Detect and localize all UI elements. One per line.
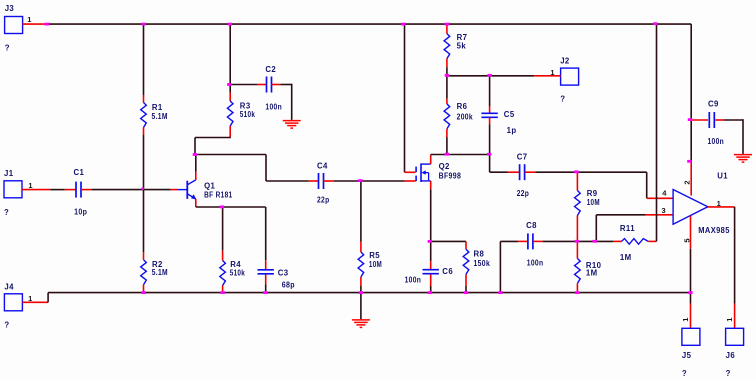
svg-text:100n: 100n — [405, 276, 422, 285]
wire — [222, 207, 224, 251]
svg-text:BF998: BF998 — [439, 172, 462, 181]
junction J5 net — [688, 291, 692, 294]
wire — [690, 293, 692, 304]
svg-text:5.1M: 5.1M — [152, 112, 168, 121]
capacitor C1 — [65, 168, 92, 217]
resistor R10 — [575, 241, 602, 292]
capacitor C6 — [405, 241, 454, 292]
wire — [265, 155, 267, 182]
capacitor C4 — [309, 162, 334, 205]
junction Q2 gate column — [401, 23, 405, 26]
wire — [690, 161, 692, 195]
wire — [430, 155, 432, 164]
resistor R2 — [141, 252, 168, 292]
svg-text:U1: U1 — [717, 172, 728, 181]
junction R5 bottom — [359, 291, 363, 294]
svg-text:Q2: Q2 — [439, 162, 450, 171]
resistor R6 — [444, 76, 473, 155]
junction R7 bottom — [445, 74, 449, 77]
svg-text:J4: J4 — [4, 283, 14, 292]
wire — [447, 75, 534, 77]
svg-text:MAX985: MAX985 — [698, 226, 730, 235]
junction R7 top — [445, 23, 449, 26]
junction R1 top — [141, 23, 145, 26]
svg-text:?: ? — [682, 369, 687, 378]
svg-text:200k: 200k — [457, 113, 474, 122]
wire — [734, 207, 736, 304]
junction Q1 collector — [193, 153, 197, 156]
svg-text:J2: J2 — [560, 56, 570, 65]
wire — [489, 155, 491, 173]
wire — [360, 181, 362, 242]
resistor R5 — [358, 242, 382, 293]
junction C9 tap — [688, 118, 692, 121]
svg-text:R11: R11 — [620, 224, 635, 233]
junction C5 top — [487, 74, 491, 77]
svg-text:510k: 510k — [240, 110, 256, 119]
capacitor C7 — [490, 153, 536, 198]
junction R3 top — [228, 23, 232, 26]
wire — [265, 207, 267, 260]
svg-text:100n: 100n — [265, 102, 282, 111]
wire — [595, 215, 597, 242]
connector J6 — [725, 304, 744, 378]
svg-text:5k: 5k — [457, 42, 467, 51]
svg-text:10p: 10p — [74, 208, 87, 217]
wire — [195, 155, 197, 172]
svg-text:C2: C2 — [265, 65, 276, 74]
junction C3 bottom — [263, 291, 267, 294]
svg-text:R6: R6 — [457, 102, 468, 111]
capacitor C5 — [481, 76, 516, 155]
resistor R4 — [220, 251, 246, 293]
svg-text:100n: 100n — [527, 259, 544, 268]
junction R6 bottom — [445, 153, 449, 156]
wire — [91, 189, 170, 191]
wire — [229, 24, 231, 84]
wire — [690, 24, 692, 119]
wire — [266, 180, 309, 182]
resistor R7 — [444, 24, 467, 76]
ground — [734, 155, 752, 163]
transistor Q1 — [171, 180, 233, 200]
wire — [742, 119, 744, 154]
wire — [708, 206, 735, 208]
svg-text:J1: J1 — [4, 169, 14, 178]
svg-text:R5: R5 — [369, 251, 380, 260]
svg-text:1: 1 — [27, 15, 31, 24]
junction C6 top — [428, 240, 432, 243]
connector J1 — [4, 169, 33, 217]
op-amp U1 — [673, 172, 730, 235]
transistor Q2 — [405, 162, 462, 182]
wire — [195, 172, 197, 180]
wire — [23, 23, 47, 25]
pin 4 label — [662, 188, 667, 197]
junction R11 column — [653, 22, 657, 25]
junction R9 bottom — [575, 240, 579, 243]
svg-text:1: 1 — [725, 318, 734, 322]
svg-text:C9: C9 — [708, 99, 719, 108]
junction R4 bottom — [220, 291, 224, 294]
junction R2 bottom — [141, 291, 145, 294]
svg-text:?: ? — [726, 369, 731, 378]
junction R4 top — [220, 206, 224, 209]
wire — [690, 120, 692, 162]
wire — [646, 214, 673, 216]
svg-text:2: 2 — [682, 180, 691, 184]
svg-text:150k: 150k — [474, 259, 491, 268]
wire — [499, 241, 501, 292]
junction R10 bottom — [575, 291, 579, 294]
junction inverting tap — [592, 240, 596, 243]
wire — [535, 171, 646, 173]
svg-text:C7: C7 — [517, 153, 528, 162]
wire — [195, 137, 231, 139]
wire — [534, 75, 560, 77]
junction C2 tap — [227, 83, 231, 86]
capacitor C3 — [258, 260, 296, 292]
wire — [690, 249, 692, 293]
connector J5 — [681, 304, 700, 378]
resistor R8 — [463, 249, 490, 292]
wire — [430, 181, 432, 189]
wire — [430, 154, 432, 157]
wire — [647, 197, 673, 199]
ground — [283, 121, 301, 129]
wire — [291, 84, 293, 120]
svg-text:1p: 1p — [507, 126, 517, 135]
resistor R11 — [613, 224, 657, 262]
connector J4 — [4, 283, 32, 330]
svg-text:5.1M: 5.1M — [152, 268, 168, 277]
capacitor C8 — [500, 221, 543, 267]
wire — [195, 199, 197, 207]
svg-text:C6: C6 — [442, 267, 453, 276]
resistor R3 — [227, 93, 255, 138]
svg-text:4: 4 — [662, 188, 667, 197]
svg-text:10M: 10M — [369, 260, 382, 269]
wire — [47, 293, 49, 303]
junction C8 column — [498, 291, 502, 294]
svg-text:C4: C4 — [317, 162, 328, 171]
wire — [431, 240, 466, 242]
wire — [46, 23, 691, 25]
svg-text:22p: 22p — [517, 189, 530, 198]
capacitor C2 — [230, 65, 292, 112]
wire — [656, 24, 658, 241]
wire — [360, 293, 362, 320]
junction C5 bottom — [487, 153, 491, 156]
svg-text:BF R181: BF R181 — [204, 190, 233, 199]
svg-text:?: ? — [560, 95, 565, 104]
svg-text:J3: J3 — [5, 4, 15, 13]
svg-text:22p: 22p — [317, 196, 330, 205]
connector J3 — [5, 4, 32, 53]
junction R9 top — [574, 170, 578, 173]
resistor R1 — [141, 95, 168, 135]
wire — [196, 154, 266, 156]
pin 5 label — [682, 238, 691, 242]
capacitor C9 — [691, 99, 743, 146]
wire — [50, 189, 65, 191]
wire — [404, 24, 406, 172]
node pin2 net — [687, 160, 691, 163]
svg-text:C5: C5 — [504, 110, 515, 119]
wire — [229, 85, 231, 93]
svg-text:1: 1 — [28, 181, 32, 190]
wire — [430, 189, 432, 241]
wire — [690, 216, 692, 249]
junction R8 bottom — [464, 291, 468, 294]
pin 3 label — [662, 206, 666, 215]
wire — [543, 240, 613, 242]
svg-text:3: 3 — [662, 206, 666, 215]
svg-text:1: 1 — [681, 318, 690, 322]
wire — [48, 292, 691, 294]
wire — [196, 206, 266, 208]
svg-text:C3: C3 — [278, 268, 289, 277]
svg-text:C8: C8 — [526, 221, 537, 230]
wire — [361, 180, 405, 182]
svg-text:?: ? — [4, 320, 9, 329]
wire — [646, 172, 648, 198]
wire — [194, 138, 196, 155]
svg-text:100n: 100n — [708, 137, 725, 146]
wire — [596, 214, 645, 216]
junction base divider — [141, 188, 144, 190]
wire — [334, 180, 361, 182]
svg-text:?: ? — [5, 44, 10, 53]
svg-text:?: ? — [4, 208, 9, 217]
pin 2 label — [682, 180, 691, 184]
pin 1 label — [717, 199, 721, 208]
svg-text:Q1: Q1 — [204, 182, 215, 191]
svg-text:510k: 510k — [230, 268, 246, 277]
svg-text:R9: R9 — [587, 189, 598, 198]
resistor R9 — [575, 172, 600, 241]
junction C6 bottom — [428, 291, 432, 294]
wire — [22, 301, 48, 303]
junction C4 out — [358, 179, 362, 182]
wire — [22, 189, 50, 191]
connector J2 — [550, 56, 578, 103]
ground — [352, 320, 370, 328]
svg-text:1M: 1M — [620, 253, 632, 262]
svg-text:68p: 68p — [282, 281, 295, 290]
wire — [143, 135, 145, 252]
wire — [465, 241, 467, 249]
wire — [431, 154, 490, 156]
svg-text:10M: 10M — [587, 198, 600, 207]
svg-text:J5: J5 — [682, 351, 692, 360]
node J3 net — [45, 23, 49, 26]
svg-text:J6: J6 — [726, 351, 736, 360]
svg-text:R8: R8 — [474, 250, 485, 259]
wire — [143, 24, 145, 95]
svg-text:1M: 1M — [586, 269, 598, 278]
svg-text:C1: C1 — [74, 168, 85, 177]
